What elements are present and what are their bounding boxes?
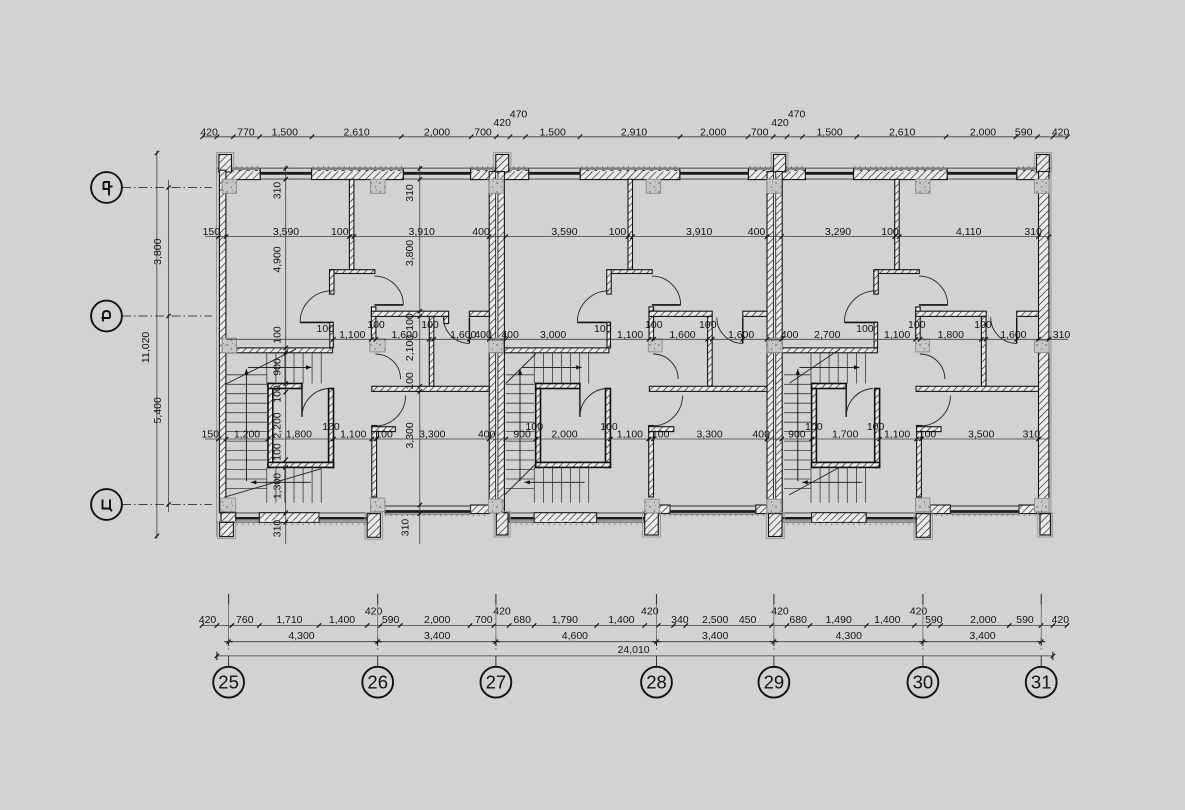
svg-text:150: 150 bbox=[203, 226, 221, 238]
unit2 bathroom bbox=[536, 384, 541, 468]
svg-text:1,100: 1,100 bbox=[339, 329, 365, 341]
column top at x 222 bbox=[222, 179, 237, 193]
svg-text:100: 100 bbox=[404, 313, 416, 331]
window top x 260-312 bbox=[260, 172, 311, 175]
svg-text:470: 470 bbox=[510, 108, 528, 120]
svg-text:3,910: 3,910 bbox=[409, 226, 435, 238]
svg-text:4,300: 4,300 bbox=[288, 630, 314, 642]
svg-text:11,020: 11,020 bbox=[140, 332, 152, 363]
grid row line at y 188 bbox=[122, 187, 212, 189]
svg-text:2,000: 2,000 bbox=[970, 126, 996, 138]
pier below bottom wall at x 645 bbox=[643, 512, 661, 537]
column mid at x 1034 bbox=[1035, 341, 1050, 353]
svg-text:1,500: 1,500 bbox=[272, 126, 298, 138]
svg-text:28: 28 bbox=[646, 672, 667, 693]
svg-text:24,010: 24,010 bbox=[618, 644, 650, 656]
unit1 hall door left bbox=[300, 321, 333, 323]
svg-text:590: 590 bbox=[382, 614, 400, 626]
top wall segment x 748-805 bbox=[748, 170, 805, 179]
svg-text:100: 100 bbox=[645, 319, 663, 331]
unit2 partition top bbox=[628, 179, 633, 269]
grid bubble 30 bbox=[908, 667, 939, 698]
grid line at x 496 bbox=[495, 594, 497, 605]
svg-text:2,610: 2,610 bbox=[343, 126, 369, 138]
column bottom at x 767 bbox=[767, 499, 782, 513]
top wall segment x 312-403 bbox=[312, 170, 404, 179]
unit3 rooms bottom wall bbox=[916, 386, 1038, 391]
unit3 rooms door arc bbox=[1016, 317, 1018, 343]
column bottom at x 221 bbox=[221, 498, 236, 512]
unit1 stair top flight treads bbox=[266, 354, 268, 384]
svg-text:3,500: 3,500 bbox=[968, 429, 994, 441]
unit3 stub below door bbox=[874, 322, 878, 348]
pier below bottom wall at x 1040 bbox=[1038, 513, 1053, 537]
svg-text:3,800: 3,800 bbox=[152, 238, 164, 264]
unit1 rooms bottom wall bbox=[372, 386, 489, 391]
svg-text:400: 400 bbox=[472, 226, 490, 238]
interior dimension row C bbox=[205, 438, 1048, 440]
unit3 rooms top wall right piece bbox=[1017, 311, 1039, 316]
svg-text:100: 100 bbox=[805, 421, 823, 433]
row bubble 2 bbox=[91, 301, 122, 332]
unit2 partition2 bbox=[708, 316, 713, 386]
svg-text:2,910: 2,910 bbox=[621, 126, 647, 138]
svg-text:2,000: 2,000 bbox=[551, 429, 577, 441]
top dimension line bbox=[203, 136, 1068, 138]
grid line at x 774 bbox=[773, 594, 775, 605]
unit1 lower partition bbox=[372, 426, 377, 498]
unit2 column at stair wall bbox=[489, 338, 504, 353]
unit2 stair direction arrows bbox=[524, 481, 584, 483]
grid bubble 26 bbox=[362, 667, 393, 698]
column bottom at x 488 bbox=[488, 499, 502, 513]
unit2 stair left flight treads bbox=[506, 374, 535, 376]
party wall at x 767 bbox=[767, 172, 774, 513]
unit2 corridor door lower bbox=[652, 396, 683, 427]
svg-text:4,300: 4,300 bbox=[836, 630, 862, 642]
svg-text:2,700: 2,700 bbox=[814, 329, 840, 341]
unit2 rooms door arc bbox=[742, 317, 744, 343]
window top x 805-854 bbox=[805, 172, 853, 175]
pier above top wall at x 219 bbox=[217, 153, 234, 173]
svg-text:100: 100 bbox=[331, 226, 349, 238]
grid bubble 31 bbox=[1026, 667, 1057, 698]
unit2 stair break lines bbox=[506, 354, 536, 384]
grid bubble 27 bbox=[481, 667, 512, 698]
svg-text:100: 100 bbox=[881, 226, 899, 238]
svg-text:4,110: 4,110 bbox=[956, 226, 982, 238]
svg-text:1,600: 1,600 bbox=[669, 329, 695, 341]
unit2 stair top flight treads bbox=[533, 354, 535, 384]
svg-text:100: 100 bbox=[609, 226, 627, 238]
unit2 hall door right bbox=[652, 304, 681, 306]
svg-text:1,100: 1,100 bbox=[340, 429, 366, 441]
svg-text:4,900: 4,900 bbox=[272, 246, 284, 272]
grid line at x 923 bbox=[922, 594, 924, 605]
unit3 cross wall bbox=[875, 270, 920, 274]
bottom wall low bay 504-645 bbox=[504, 523, 644, 525]
unit3 lower partition stub bbox=[917, 427, 942, 432]
svg-text:680: 680 bbox=[513, 614, 531, 626]
unit3 corridor door upper bbox=[920, 354, 945, 379]
column top at x 646 bbox=[646, 179, 661, 193]
column bottom at x 645 bbox=[645, 499, 660, 513]
unit1 column at stair wall bbox=[222, 338, 237, 353]
left dim line 3,800/5,400 bbox=[168, 180, 170, 512]
unit3 column at stair wall bbox=[767, 338, 782, 353]
svg-text:400: 400 bbox=[781, 329, 799, 341]
unit3 cluster left stub bbox=[874, 270, 879, 294]
top exterior wall bbox=[217, 167, 1051, 169]
svg-text:680: 680 bbox=[789, 614, 807, 626]
svg-text:400: 400 bbox=[748, 226, 766, 238]
row bubble 1 bbox=[91, 172, 122, 203]
svg-text:27: 27 bbox=[486, 672, 507, 693]
unit2 column mid bbox=[648, 339, 662, 352]
svg-text:1,800: 1,800 bbox=[286, 429, 312, 441]
svg-text:590: 590 bbox=[925, 614, 943, 626]
svg-text:1,790: 1,790 bbox=[552, 614, 578, 626]
pier below bottom wall at x 220 bbox=[218, 521, 236, 538]
svg-text:420: 420 bbox=[910, 606, 928, 618]
unit1 rooms top wall bbox=[371, 311, 448, 316]
unit2 hall door left bbox=[577, 321, 610, 323]
svg-text:5,400: 5,400 bbox=[152, 397, 164, 423]
svg-text:450: 450 bbox=[739, 614, 757, 626]
svg-text:590: 590 bbox=[1015, 126, 1033, 138]
svg-text:3,000: 3,000 bbox=[540, 329, 566, 341]
svg-text:1,500: 1,500 bbox=[816, 126, 842, 138]
unit1 bathroom door bbox=[301, 389, 303, 417]
svg-text:1,300: 1,300 bbox=[272, 473, 284, 499]
svg-text:3,910: 3,910 bbox=[686, 226, 712, 238]
svg-text:1,710: 1,710 bbox=[276, 614, 302, 626]
unit1 cluster left stub bbox=[330, 270, 335, 294]
svg-text:100: 100 bbox=[908, 319, 926, 331]
svg-text:100: 100 bbox=[317, 323, 335, 335]
svg-text:3,400: 3,400 bbox=[702, 630, 728, 642]
unit3 corridor door lower bbox=[920, 396, 951, 427]
pier above top wall at x 496 bbox=[494, 153, 511, 173]
svg-text:2,000: 2,000 bbox=[424, 126, 450, 138]
unit2 rooms top wall bbox=[649, 311, 712, 316]
svg-text:3,400: 3,400 bbox=[969, 630, 995, 642]
unit3 bathroom door bbox=[845, 389, 847, 417]
unit2 partition mid bbox=[649, 307, 654, 339]
svg-text:1,100: 1,100 bbox=[884, 429, 910, 441]
unit3 partition mid bbox=[916, 307, 921, 339]
grid bubble 28 bbox=[641, 667, 672, 698]
unit1 door jamb stub bbox=[444, 316, 449, 323]
svg-text:1,500: 1,500 bbox=[540, 126, 566, 138]
svg-text:1,700: 1,700 bbox=[832, 429, 858, 441]
grid line at x 229 bbox=[228, 594, 230, 605]
top wall segment x 854-947 bbox=[854, 170, 948, 179]
svg-text:1,100: 1,100 bbox=[617, 329, 643, 341]
unit2 rooms bottom wall bbox=[649, 386, 767, 391]
svg-text:420: 420 bbox=[1052, 614, 1070, 626]
svg-text:1,400: 1,400 bbox=[329, 614, 355, 626]
svg-text:4,600: 4,600 bbox=[562, 630, 588, 642]
svg-text:3,300: 3,300 bbox=[696, 429, 722, 441]
svg-text:1,800: 1,800 bbox=[938, 329, 964, 341]
bottom dimension row 1 bbox=[202, 625, 1067, 627]
svg-text:340: 340 bbox=[671, 614, 689, 626]
unit1 corridor door upper bbox=[376, 354, 401, 379]
svg-text:470: 470 bbox=[788, 108, 806, 120]
unit1 partition mid bbox=[371, 307, 376, 339]
svg-text:100: 100 bbox=[272, 326, 284, 344]
svg-text:420: 420 bbox=[771, 117, 789, 129]
svg-text:420: 420 bbox=[493, 117, 511, 129]
row bubble 3 bbox=[91, 489, 122, 520]
unit1 corridor door lower bbox=[375, 396, 406, 427]
unit2 rooms top wall right piece bbox=[743, 311, 767, 316]
unit3 stair left flight treads bbox=[784, 374, 811, 376]
svg-text:700: 700 bbox=[475, 614, 493, 626]
unit3 stair bottom flight treads bbox=[810, 467, 812, 503]
unit1 rooms door arc bbox=[468, 317, 470, 343]
svg-text:2,000: 2,000 bbox=[700, 126, 726, 138]
unit2 cluster left stub bbox=[607, 270, 612, 294]
unit3 partition top bbox=[895, 179, 900, 269]
svg-text:1,100: 1,100 bbox=[884, 329, 910, 341]
svg-text:30: 30 bbox=[913, 672, 934, 693]
unit1 stair break lines bbox=[226, 349, 296, 384]
column bottom at x 1034 bbox=[1035, 498, 1050, 512]
column top at x 767 bbox=[767, 179, 782, 193]
unit3 rooms top wall bbox=[916, 311, 987, 316]
column bottom at x 370 bbox=[370, 498, 385, 512]
grid line at x 378 bbox=[377, 594, 379, 605]
svg-text:3,590: 3,590 bbox=[551, 226, 577, 238]
svg-text:3,400: 3,400 bbox=[424, 630, 450, 642]
column top at x 489 bbox=[489, 179, 504, 193]
svg-text:1,200: 1,200 bbox=[234, 429, 260, 441]
column top at x 370 bbox=[371, 179, 386, 193]
svg-text:400: 400 bbox=[478, 429, 496, 441]
svg-text:1,600: 1,600 bbox=[1000, 329, 1026, 341]
left exterior wall bbox=[216, 154, 218, 537]
svg-text:310: 310 bbox=[404, 184, 416, 202]
svg-text:100: 100 bbox=[272, 385, 284, 403]
unit3 hall door left bbox=[844, 321, 877, 323]
svg-text:31: 31 bbox=[1031, 672, 1052, 693]
svg-text:420: 420 bbox=[199, 614, 217, 626]
unit1 lower partition stub bbox=[372, 427, 396, 432]
unit2 stair bottom flight treads bbox=[533, 467, 535, 503]
svg-text:1,600: 1,600 bbox=[450, 329, 476, 341]
svg-text:310: 310 bbox=[272, 520, 284, 538]
unit3 column mid bbox=[916, 339, 930, 352]
unit2 stair hall wall bbox=[504, 348, 609, 353]
svg-text:100: 100 bbox=[526, 421, 544, 433]
svg-text:700: 700 bbox=[474, 126, 492, 138]
grid bubble 25 bbox=[213, 667, 244, 698]
unit1 cross wall bbox=[330, 270, 375, 274]
svg-text:1,400: 1,400 bbox=[608, 614, 634, 626]
svg-text:2,500: 2,500 bbox=[702, 614, 728, 626]
svg-text:770: 770 bbox=[237, 126, 255, 138]
svg-text:100: 100 bbox=[600, 421, 618, 433]
svg-text:1,490: 1,490 bbox=[826, 614, 852, 626]
grid row line at y 504 bbox=[122, 504, 212, 506]
unit2 bathroom door bbox=[579, 389, 581, 417]
grid line at x 1041 bbox=[1040, 594, 1042, 605]
svg-text:700: 700 bbox=[751, 126, 769, 138]
pier above top wall at x 1036 bbox=[1034, 153, 1051, 173]
svg-text:100: 100 bbox=[272, 443, 284, 461]
svg-text:100: 100 bbox=[867, 421, 885, 433]
svg-text:2,200: 2,200 bbox=[272, 412, 284, 438]
pier below bottom wall at x 916 bbox=[914, 513, 932, 540]
unit2 lower partition bbox=[649, 426, 654, 498]
column mid at x 768 bbox=[768, 341, 783, 353]
unit3 stair hall wall bbox=[782, 348, 878, 353]
unit1 stair hall wall bbox=[226, 348, 333, 353]
unit3 stair top flight treads bbox=[810, 354, 812, 384]
svg-text:310: 310 bbox=[272, 182, 284, 200]
top wall segment x 225-260 bbox=[225, 170, 261, 179]
grid line at x 656 bbox=[656, 594, 658, 605]
svg-text:3,290: 3,290 bbox=[825, 226, 851, 238]
svg-text:590: 590 bbox=[1016, 614, 1034, 626]
svg-text:3,300: 3,300 bbox=[419, 429, 445, 441]
bottom wall low bay 782-916 bbox=[782, 523, 916, 525]
interior dimension row A bbox=[205, 236, 1050, 238]
bottom wall high bay 658-767 bbox=[658, 514, 767, 516]
svg-text:2,000: 2,000 bbox=[424, 614, 450, 626]
svg-text:100: 100 bbox=[322, 421, 340, 433]
top wall segment x 1017-1049 bbox=[1017, 170, 1049, 179]
svg-text:25: 25 bbox=[218, 672, 239, 693]
unit1 vertical dim line left bbox=[285, 166, 287, 545]
unit1 stair left flight treads bbox=[226, 374, 267, 376]
svg-text:900: 900 bbox=[788, 429, 806, 441]
unit1 partition top bbox=[349, 179, 354, 269]
unit1 column mid bbox=[370, 339, 386, 352]
svg-text:29: 29 bbox=[764, 672, 785, 693]
column mid at x 489 bbox=[489, 341, 504, 353]
interior dimension row B bbox=[226, 338, 1068, 340]
pier below bottom wall at x 496 bbox=[494, 512, 510, 537]
unit3 hall door right bbox=[919, 304, 948, 306]
bottom dimension row 2 bbox=[229, 641, 1042, 643]
top wall segment x 471-529 bbox=[471, 170, 529, 179]
grid row line at y 316 bbox=[122, 315, 212, 317]
svg-text:420: 420 bbox=[365, 606, 383, 618]
svg-text:2,100: 2,100 bbox=[404, 335, 416, 361]
svg-text:400: 400 bbox=[501, 329, 519, 341]
unit1 vertical dim line right bbox=[419, 166, 421, 545]
svg-text:310: 310 bbox=[400, 519, 412, 537]
svg-text:3,800: 3,800 bbox=[404, 240, 416, 266]
bottom dimension row 3 (total) bbox=[217, 655, 1053, 657]
unit2 stub below door bbox=[607, 322, 611, 348]
svg-text:100: 100 bbox=[421, 319, 439, 331]
pier above top wall at x 774 bbox=[771, 153, 788, 173]
svg-text:2,000: 2,000 bbox=[970, 614, 996, 626]
window top x 403-471 bbox=[403, 172, 470, 175]
bottom wall high bay 385-489 bbox=[385, 514, 489, 516]
svg-text:100: 100 bbox=[404, 372, 416, 390]
bottom wall high bay 930-1038 bbox=[930, 514, 1038, 516]
grid bubble 29 bbox=[759, 667, 790, 698]
svg-text:420: 420 bbox=[1052, 126, 1070, 138]
svg-text:760: 760 bbox=[236, 614, 254, 626]
unit1 rooms top wall right piece bbox=[469, 311, 489, 316]
svg-text:100: 100 bbox=[699, 319, 717, 331]
svg-text:100: 100 bbox=[594, 323, 612, 335]
svg-text:3,300: 3,300 bbox=[404, 422, 416, 448]
svg-text:26: 26 bbox=[367, 672, 388, 693]
svg-text:100: 100 bbox=[974, 319, 992, 331]
column top at x 1034 bbox=[1035, 179, 1050, 193]
unit2 cross wall bbox=[608, 270, 653, 274]
unit1 stair direction arrows bbox=[251, 481, 311, 483]
unit3 partition2 bbox=[981, 316, 986, 386]
column bottom at x 916 bbox=[916, 498, 931, 512]
left total dim line 11,020 bbox=[156, 151, 158, 539]
svg-text:100: 100 bbox=[375, 429, 393, 441]
svg-text:1,600: 1,600 bbox=[728, 329, 754, 341]
unit1 stair bottom flight treads bbox=[266, 467, 268, 503]
unit3 stair break lines bbox=[790, 349, 840, 383]
svg-text:2,610: 2,610 bbox=[889, 126, 915, 138]
unit3 bathroom bbox=[812, 384, 817, 468]
svg-text:1,100: 1,100 bbox=[617, 429, 643, 441]
column top at x 916 bbox=[916, 179, 931, 193]
unit2 corridor door upper bbox=[653, 354, 678, 379]
window top x 947-1017 bbox=[947, 172, 1017, 175]
unit3 lower partition bbox=[917, 426, 922, 498]
pier below bottom wall at x 367 bbox=[365, 513, 383, 540]
window top x 529-580 bbox=[529, 172, 581, 175]
svg-text:1,400: 1,400 bbox=[874, 614, 900, 626]
unit1 partition2 bbox=[429, 316, 434, 386]
svg-text:100: 100 bbox=[856, 323, 874, 335]
unit1 bathroom bbox=[268, 384, 273, 468]
unit1 hall door right bbox=[375, 304, 404, 306]
svg-text:900: 900 bbox=[272, 358, 284, 376]
unit3 stair direction arrows bbox=[802, 481, 862, 483]
unit2 lower partition stub bbox=[649, 427, 674, 432]
svg-text:100: 100 bbox=[367, 319, 385, 331]
pier below bottom wall at x 768 bbox=[766, 513, 784, 539]
top wall segment x 580-680 bbox=[580, 170, 680, 179]
svg-text:310: 310 bbox=[1023, 429, 1041, 441]
svg-text:420: 420 bbox=[200, 126, 218, 138]
unit1 stub below door bbox=[330, 322, 334, 348]
svg-text:150: 150 bbox=[202, 429, 220, 441]
window top x 680-748 bbox=[680, 172, 749, 175]
svg-text:100: 100 bbox=[652, 429, 670, 441]
right exterior wall bbox=[1050, 154, 1052, 538]
svg-text:310: 310 bbox=[1053, 329, 1071, 341]
svg-text:420: 420 bbox=[641, 606, 659, 618]
bottom wall low bay 226-371 bbox=[226, 523, 371, 525]
party wall at x 489 bbox=[489, 172, 496, 513]
